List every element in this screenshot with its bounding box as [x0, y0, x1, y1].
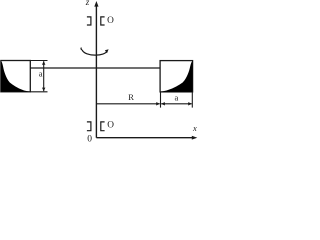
left dim top extension line	[30, 60, 47, 62]
z-axis	[95, 5, 97, 138]
top bearing right bracket	[101, 17, 105, 25]
svg-text:a: a	[175, 92, 179, 102]
left dim down arrowhead	[42, 88, 45, 92]
bottom bearing left bracket	[87, 122, 91, 131]
left dim up arrowhead	[42, 61, 45, 65]
x-axis arrowhead	[192, 136, 198, 140]
rotation arrow arc	[82, 50, 107, 55]
svg-text:x: x	[192, 123, 197, 133]
rotation arrowhead	[105, 49, 109, 53]
svg-text:z: z	[85, 0, 90, 7]
R dim line	[97, 103, 160, 105]
rotation arrow left hook	[81, 48, 82, 50]
svg-text:O: O	[107, 16, 114, 26]
right square	[160, 61, 193, 92]
right a dim line	[161, 103, 191, 105]
svg-text:a: a	[39, 69, 43, 79]
left dim line a	[43, 61, 45, 91]
left square	[1, 61, 30, 92]
svg-text:0: 0	[87, 134, 92, 142]
R dim arrowhead	[156, 102, 160, 105]
right ext line left	[160, 92, 162, 108]
bottom bearing right bracket	[101, 122, 105, 131]
svg-text:O: O	[107, 121, 114, 131]
x-axis	[96, 137, 194, 139]
right a right arrowhead	[188, 102, 192, 105]
left black quarter region	[1, 61, 30, 92]
z-axis arrowhead	[94, 1, 98, 7]
right a left arrowhead	[161, 102, 165, 105]
left dim bottom extension line	[30, 91, 47, 93]
right black quarter region	[160, 61, 193, 92]
top bearing left bracket	[87, 17, 91, 25]
svg-text:R: R	[128, 92, 134, 102]
rod	[30, 67, 160, 69]
right ext line right	[191, 92, 193, 108]
